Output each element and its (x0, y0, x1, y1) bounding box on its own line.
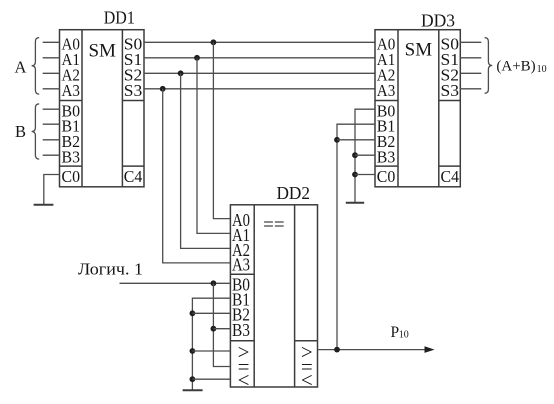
svg-text:C4: C4 (441, 167, 460, 186)
svg-text:A3: A3 (232, 254, 250, 274)
DD1 pin label C0 (62, 167, 81, 186)
svg-text:SM: SM (405, 39, 433, 60)
DD2 cascade input symbols > = < (238, 340, 250, 392)
svg-text:==: == (263, 215, 284, 236)
label A (15, 57, 27, 76)
junction logic-1 at B0 (211, 280, 217, 286)
junction on P10 output wire (334, 347, 340, 353)
svg-text:<: < (238, 368, 250, 392)
wire ground net to DD2 B1 (192, 298, 230, 390)
svg-text:SM: SM (88, 40, 116, 61)
DD1 pin labels B0-B3 (62, 102, 81, 167)
svg-text:S3: S3 (124, 81, 143, 100)
DD3 pin labels S0-S3 (441, 35, 460, 101)
label P10 (391, 324, 409, 341)
wire ground net to DD3 B0 (355, 109, 375, 202)
svg-text:B3: B3 (377, 148, 396, 167)
svg-text:(A+B): (A+B) (496, 59, 535, 75)
DD3 pin labels B0-B3 (377, 102, 396, 167)
input group brace A (32, 38, 40, 95)
output stubs DD3 S0-S3 (460, 42, 481, 89)
wire S3 down to DD2 A3 (163, 89, 231, 263)
DD2 output symbols > = < (301, 340, 313, 392)
ground under DD1 C0 (34, 204, 54, 206)
input stubs A0-A3 (43, 42, 60, 89)
wire S1 (DD1 to DD3 A1) (144, 57, 375, 59)
DD3 label (421, 11, 455, 31)
junction P10 at DD3 B2 (334, 137, 340, 143)
DD3 pin label C0 (377, 167, 396, 186)
svg-text:A3: A3 (62, 81, 81, 100)
svg-text:B3: B3 (232, 320, 250, 340)
junction ground at DD2 < input (190, 376, 196, 382)
svg-text:DD2: DD2 (276, 183, 310, 203)
adder DD1 body (60, 30, 145, 187)
svg-text:S3: S3 (441, 81, 460, 100)
DD3 pin label C4 (441, 167, 460, 186)
DD1 pin label C4 (124, 167, 143, 186)
svg-text:10: 10 (537, 64, 547, 75)
junction on S2 (178, 70, 184, 76)
DD1 pin labels A0-A3 (62, 35, 81, 101)
svg-text:A3: A3 (377, 81, 396, 100)
wire S2 down to DD2 A2 (181, 73, 231, 248)
stub DD2 < input (192, 378, 230, 380)
input group brace B (32, 104, 40, 159)
svg-text:C0: C0 (377, 167, 396, 186)
DD2 pin labels A0-A3 (232, 210, 250, 274)
svg-text:DD3: DD3 (421, 11, 455, 31)
label (A+B)10 (496, 59, 546, 76)
junction on S1 (194, 55, 200, 61)
wire S2 (DD1 to DD3 A2) (144, 72, 375, 74)
adder DD3 body (375, 30, 460, 187)
DD3 function label SM (405, 39, 433, 60)
junction ground at DD3 C0 (352, 172, 358, 178)
svg-text:<: < (301, 368, 313, 392)
label B (15, 122, 26, 141)
label Логич. 1 (78, 260, 143, 279)
junction ground at DD2 B2 (190, 310, 196, 316)
input stubs B0-B3 (43, 109, 60, 155)
wire P10 up to DD3 B1 (337, 124, 375, 349)
svg-text:C4: C4 (124, 167, 143, 186)
wire S0 down to DD2 A0 (213, 42, 230, 218)
svg-text:B3: B3 (62, 148, 81, 167)
DD1 function label SM (88, 40, 116, 61)
arrowhead P10 (425, 346, 435, 353)
stub DD3 B2 (337, 139, 375, 141)
svg-text:C0: C0 (62, 167, 81, 186)
junction ground at DD2 > input (190, 348, 196, 354)
wire S1 down to DD2 A1 (197, 58, 230, 234)
svg-text:DD1: DD1 (104, 8, 135, 28)
wire logic-1 down to DD2 = input (213, 283, 230, 366)
comparator DD2 body (230, 205, 317, 387)
DD2 label (276, 183, 310, 203)
svg-text:Логич. 1: Логич. 1 (78, 260, 143, 279)
DD2 function label == (263, 215, 284, 236)
svg-text:10: 10 (399, 330, 409, 341)
junction logic-1 at DD2 B3 (211, 326, 217, 332)
wire S0 (DD1 to DD3 A0) (144, 41, 375, 43)
stub DD3 B3 (355, 154, 375, 156)
wire P10 output (318, 349, 428, 351)
stub DD3 C0 (355, 174, 375, 176)
DD1 pin labels S0-S3 (124, 35, 143, 101)
stub DD2 B2 (192, 312, 230, 314)
stub DD2 B3 (213, 328, 230, 330)
svg-text:B: B (15, 122, 26, 141)
junction ground at DD3 B3 (352, 152, 358, 158)
DD3 pin labels A0-A3 (377, 35, 396, 101)
ground under DD3 C0 (346, 202, 364, 204)
output group brace (485, 38, 493, 94)
DD1 label (104, 8, 135, 28)
svg-text:A: A (15, 57, 27, 76)
wire DD1 C0 to ground (44, 175, 60, 205)
ground under DD2 (183, 389, 203, 391)
stub DD2 > input (192, 350, 230, 352)
DD2 pin labels B0-B3 (232, 275, 250, 340)
junction on S3 (160, 86, 166, 92)
wire S3 (DD1 to DD3 A3) (144, 88, 375, 90)
junction on S0 (211, 39, 217, 45)
wire logic-1 to DD2 B0 (120, 282, 231, 284)
